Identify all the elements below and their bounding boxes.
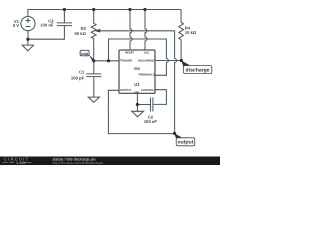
svg-text:GND: GND <box>134 91 139 94</box>
svg-text:discharge: discharge <box>186 67 210 73</box>
wire +5V top rail <box>28 9 182 11</box>
svg-text:http://circuitlab.com/c/6nfw39: http://circuitlab.com/c/6nfw393nkawb <box>53 161 104 165</box>
svg-text:THRESHOLD: THRESHOLD <box>138 74 155 77</box>
wiper arrow of R3 <box>95 29 101 33</box>
node IC gnd / C2 <box>136 103 139 106</box>
node V1 minus / ground <box>26 38 29 41</box>
node discharge <box>180 59 183 62</box>
label R4 <box>185 25 197 35</box>
svg-text:50 kΩ: 50 kΩ <box>74 31 86 36</box>
wire CONTROL pin to C2 <box>153 90 167 105</box>
svg-text:C1: C1 <box>79 69 85 74</box>
svg-text:CONTROL: CONTROL <box>141 89 155 92</box>
svg-text:output: output <box>177 140 193 146</box>
flag cap <box>80 50 94 61</box>
wire rail to RESET pin (hops over wiper and cap wires) <box>130 10 132 51</box>
wire R3 wiper to output node (vertical with hop over discharge wire) <box>99 31 177 134</box>
svg-text:100 pF: 100 pF <box>71 75 85 80</box>
node output <box>173 132 176 135</box>
ground below IC GND <box>132 105 144 117</box>
wire V1 top lead <box>27 10 29 17</box>
capacitor C1 <box>86 61 101 97</box>
svg-text:VCC: VCC <box>144 51 150 54</box>
wire rail to VCC pin (hops over wiper and cap wires) <box>145 10 147 51</box>
svg-text:TRIGGER: TRIGGER <box>120 60 132 63</box>
V1 polarity marks <box>26 18 31 27</box>
node trigger/threshold tap <box>107 59 110 62</box>
svg-text:100 nF: 100 nF <box>144 119 157 124</box>
node rail/C3 <box>63 8 66 11</box>
svg-text:cap: cap <box>81 51 89 56</box>
potentiometer R3 <box>91 10 96 61</box>
svg-text:100 nF: 100 nF <box>40 23 54 28</box>
wire V1 bottom lead <box>27 31 29 40</box>
node rail/R3 <box>92 8 95 11</box>
wire trigger tap up and over to THRESHOLD (hop over discharge wire) <box>109 39 169 75</box>
node rail/VCC <box>143 8 146 11</box>
ground below C1 <box>88 97 99 102</box>
wire cap node to TRIGGER pin <box>94 60 119 62</box>
ground below V1 <box>22 39 33 51</box>
node cap (R3/C1/TRIGGER) <box>92 59 95 62</box>
IC U1 555 box <box>119 50 155 93</box>
wire DISCHARGE pin to R4 bottom <box>155 60 181 62</box>
wire ground bus V1 to C3 <box>28 26 65 40</box>
capacitor C3 <box>57 10 72 26</box>
svg-text:DISCHARGE: DISCHARGE <box>138 60 154 63</box>
capacitor C2 <box>137 98 153 112</box>
resistor R4 <box>179 10 184 61</box>
node rail/RESET <box>128 8 131 11</box>
voltage source V1 <box>21 17 35 31</box>
IC U1 pin labels <box>120 51 155 94</box>
label C3 <box>40 19 54 28</box>
label C2 <box>144 115 157 124</box>
svg-text:OUTPUT: OUTPUT <box>120 89 131 92</box>
svg-text:5 V: 5 V <box>13 23 19 28</box>
svg-text:U1: U1 <box>134 82 140 87</box>
wire OUTPUT pin routing to output node <box>108 90 174 133</box>
svg-text:RESET: RESET <box>125 51 134 54</box>
flag output <box>174 133 195 146</box>
wire GND pin down <box>136 93 138 104</box>
svg-text:LAB: LAB <box>17 161 26 165</box>
junction node dots <box>26 8 183 135</box>
svg-text:555: 555 <box>134 67 141 71</box>
flag discharge <box>181 60 212 73</box>
footer watermark bar <box>0 157 220 166</box>
label C1 <box>71 69 85 80</box>
svg-text:10 kΩ: 10 kΩ <box>185 30 197 35</box>
label R3 <box>74 26 86 36</box>
label V1 <box>13 19 20 28</box>
